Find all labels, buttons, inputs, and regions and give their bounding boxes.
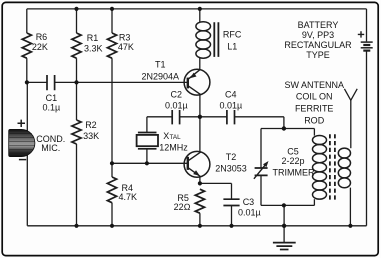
svg-text:T1: T1: [155, 59, 166, 69]
svg-text:C4: C4: [225, 90, 237, 100]
svg-text:BATTERY: BATTERY: [298, 20, 339, 30]
svg-text:SW ANTENNA: SW ANTENNA: [284, 80, 344, 90]
svg-text:L1: L1: [227, 42, 237, 52]
svg-text:33K: 33K: [83, 131, 99, 141]
svg-text:RFC: RFC: [223, 29, 242, 39]
svg-text:22Ω: 22Ω: [174, 202, 191, 212]
svg-text:0.01µ: 0.01µ: [238, 208, 261, 218]
svg-text:0.01µ: 0.01µ: [165, 101, 188, 111]
svg-text:47K: 47K: [118, 42, 134, 52]
svg-text:T2: T2: [226, 152, 237, 162]
svg-text:TRIMMER: TRIMMER: [273, 168, 315, 178]
svg-text:2-22p: 2-22p: [281, 156, 304, 166]
svg-text:R6: R6: [36, 32, 48, 42]
svg-text:TAL: TAL: [170, 134, 182, 141]
svg-text:FERRITE: FERRITE: [295, 104, 334, 114]
svg-text:22K: 22K: [32, 42, 48, 52]
svg-text:R3: R3: [119, 32, 131, 42]
svg-text:4.7K: 4.7K: [119, 192, 138, 202]
svg-text:R1: R1: [87, 33, 99, 43]
svg-text:0.1µ: 0.1µ: [43, 102, 61, 112]
svg-text:C1: C1: [46, 93, 58, 103]
svg-text:C2: C2: [171, 90, 183, 100]
svg-text:2N3053: 2N3053: [215, 163, 247, 173]
svg-text:TYPE: TYPE: [306, 50, 330, 60]
svg-text:RECTANGULAR: RECTANGULAR: [284, 40, 352, 50]
svg-text:0.01µ: 0.01µ: [219, 101, 242, 111]
svg-text:2N2904A: 2N2904A: [142, 71, 180, 81]
svg-text:3.3K: 3.3K: [84, 44, 103, 54]
svg-text:X: X: [163, 131, 169, 141]
svg-text:COIL ON: COIL ON: [296, 92, 333, 102]
svg-text:9V, PP3: 9V, PP3: [302, 30, 334, 40]
svg-text:12MHz: 12MHz: [159, 142, 188, 152]
svg-text:C3: C3: [243, 197, 255, 207]
svg-text:R2: R2: [85, 120, 97, 130]
svg-text:ROD: ROD: [304, 116, 325, 126]
svg-text:MIC.: MIC.: [41, 143, 60, 153]
